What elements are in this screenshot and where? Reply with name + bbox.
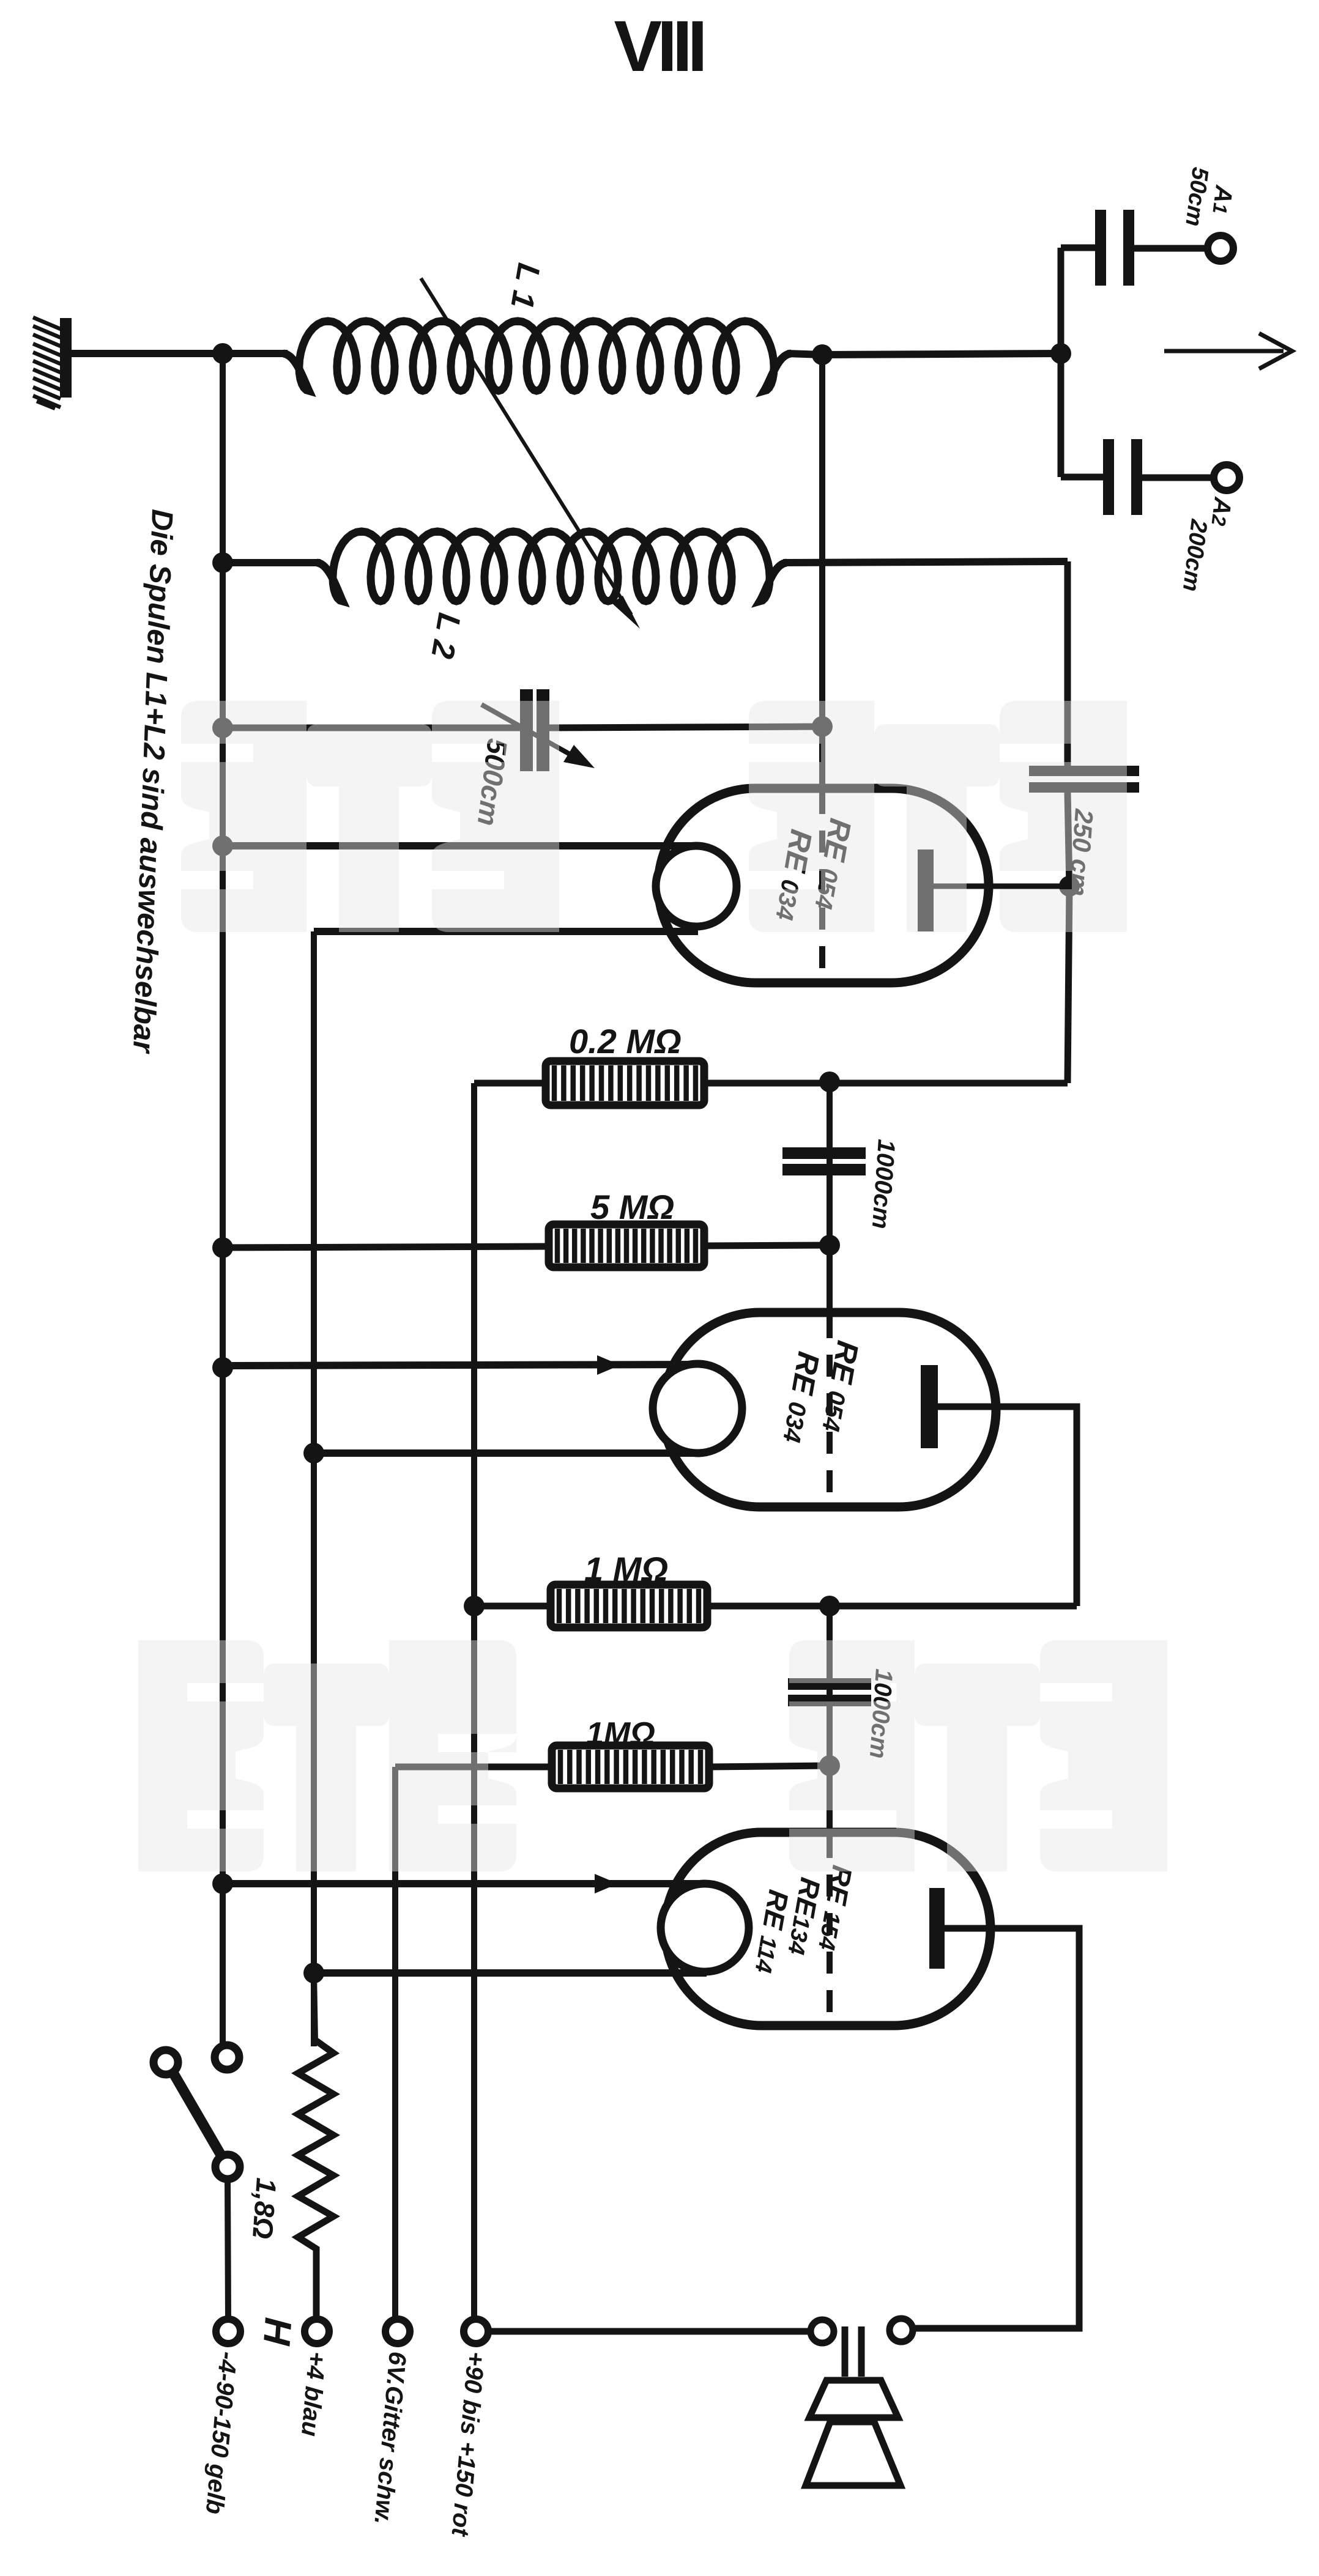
node bus A / tube3 grid xyxy=(212,1873,233,1894)
wire output vertical xyxy=(1058,248,1064,477)
wire tube1 grid wire xyxy=(223,842,698,849)
wire B+ bus C vertical xyxy=(471,1083,477,2331)
svg-text:1MΩ: 1MΩ xyxy=(586,1716,655,1752)
node L1 right xyxy=(812,344,833,365)
speaker terminal left xyxy=(811,2320,834,2343)
wire tube1 cathode wire xyxy=(314,928,698,935)
capacitor 1000cm no.1 xyxy=(782,1147,866,1159)
terminal A2 xyxy=(1214,465,1239,490)
wire bus A to 500cm cap to tube1 grid-cap line xyxy=(223,725,520,731)
svg-text:5 MΩ: 5 MΩ xyxy=(590,1188,674,1226)
wire tube1 plate wire xyxy=(934,884,1069,889)
wire cathode bus B vertical xyxy=(311,931,317,2046)
wire grid-bias bus D vertical xyxy=(392,1767,398,2331)
switch lever xyxy=(171,2070,224,2160)
node 1000cm no.2 / 1M no.2 xyxy=(819,1755,840,1776)
terminal 1 -4-90-150 gelb xyxy=(216,2319,240,2344)
node tube1 plate xyxy=(1059,876,1080,897)
wire 1000cm no.2 vertical xyxy=(827,1606,833,1832)
capacitor A2 200cm xyxy=(1061,474,1104,481)
speaker terminal right xyxy=(890,2319,913,2342)
svg-text:VIII: VIII xyxy=(614,6,702,87)
node 5M / tube2 grid line xyxy=(819,1235,840,1256)
node bus A / 5M xyxy=(212,1237,233,1258)
wire 5M left leg xyxy=(223,1246,549,1248)
switch contact top xyxy=(215,2045,239,2070)
wire tube1 grid-cap vertical xyxy=(819,355,825,790)
node bus A / tube1 grid return xyxy=(212,835,233,856)
wire bus A vertical xyxy=(220,353,226,2046)
node bus A / antenna xyxy=(212,343,233,364)
tube V3 RE154/RE134/RE114 xyxy=(665,1832,990,2026)
arrowhead tube2 grid xyxy=(597,1355,620,1375)
capacitor A1 50cm xyxy=(1061,245,1096,251)
resistor 1M no.1 xyxy=(551,1585,707,1627)
node 1M / 1000cm no.2 xyxy=(819,1596,840,1616)
terminal 4 +90 bis +150 rot xyxy=(464,2319,488,2344)
wire switch to terminal 1 xyxy=(228,2179,228,2320)
terminal A1 xyxy=(1208,235,1233,261)
wire tube3 grid wire xyxy=(223,1880,707,1887)
wire tube3 cathode wire xyxy=(314,1969,707,1977)
node bus C / 1M xyxy=(464,1596,485,1616)
resistor 1.8 ohm zigzag xyxy=(298,2041,333,2319)
terminal 3 6V.Gitter schw. xyxy=(385,2319,410,2344)
node 0.2M / 1000cm xyxy=(819,1071,840,1092)
wire 0.2M right leg xyxy=(704,1080,1068,1087)
svg-text:H: H xyxy=(255,2316,299,2347)
tube V2 RE054/RE034 xyxy=(663,1312,996,1507)
svg-text:1 MΩ: 1 MΩ xyxy=(584,1550,668,1588)
wire ground to bus A xyxy=(70,350,223,357)
wire 1M no.1 right leg xyxy=(707,1603,1077,1610)
node output junction xyxy=(1050,343,1071,364)
svg-text:0.2 MΩ: 0.2 MΩ xyxy=(569,1022,682,1060)
coil L2 xyxy=(317,531,787,601)
wire 0.2M left leg xyxy=(474,1080,546,1087)
node bus B / tube2 cathode xyxy=(303,1443,324,1464)
wire tube3 plate wire xyxy=(913,1928,1079,2328)
node bus B / tube3 cathode xyxy=(303,1963,324,1983)
speaker (Lautsprecher) horn xyxy=(845,2326,861,2377)
capacitor 1000cm no.2 xyxy=(788,1678,871,1690)
wire tube2 grid wire xyxy=(223,1364,700,1366)
wire L2 right vertical to 250cm xyxy=(1064,561,1071,767)
resistor 0.2M xyxy=(546,1061,704,1105)
tube V1 RE054/RE034 xyxy=(658,788,989,983)
node bus A / 500cm xyxy=(212,717,233,738)
resistor 1M no.2 xyxy=(552,1745,709,1788)
terminal 2 +4 blau xyxy=(305,2319,329,2344)
node bus A / L2 xyxy=(212,552,233,573)
output arrow xyxy=(1164,333,1292,369)
arrowhead tube3 grid xyxy=(595,1874,618,1893)
resistor 5M xyxy=(549,1224,704,1267)
wire 1M no.2 left leg xyxy=(395,1764,552,1771)
switch pivot xyxy=(154,2050,178,2074)
wire terminal4 to speaker xyxy=(488,2328,811,2335)
capacitor 250cm xyxy=(1029,766,1139,776)
wire 1M no.1 left leg xyxy=(474,1603,551,1610)
variable-coupling arrow through L1/L2 xyxy=(421,278,631,615)
switch contact bottom xyxy=(215,2155,240,2179)
wire 250cm to tube1 plate node xyxy=(1068,793,1069,1083)
node bus A / tube2 grid xyxy=(212,1357,233,1378)
wire 1M no.2 right leg xyxy=(709,1766,830,1767)
coil L1 xyxy=(283,321,791,391)
wire 1000cm no.1 vertical xyxy=(827,1082,833,1312)
svg-text:1,8Ω: 1,8Ω xyxy=(247,2177,283,2240)
wire tube2 plate wire xyxy=(938,1407,1077,1606)
ground (Erde) symbol xyxy=(60,318,72,398)
wire 5M right leg xyxy=(704,1245,830,1246)
wire bus B to 1.8ohm xyxy=(314,1973,315,2041)
node 500cm / tube1 grid-cap xyxy=(812,716,833,737)
wire tube2 cathode wire xyxy=(314,1449,704,1457)
capacitor 500cm variable xyxy=(520,689,533,771)
wire L1 node to output node xyxy=(822,353,1061,355)
watermark BTB row1 xyxy=(138,701,1167,1871)
